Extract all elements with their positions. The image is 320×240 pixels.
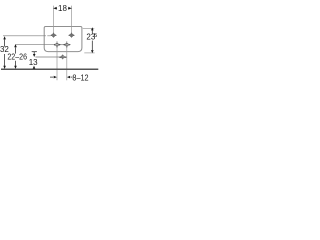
svg-text:22–26: 22–26 [7, 52, 27, 61]
svg-text:18: 18 [58, 4, 67, 13]
svg-text:5: 5 [94, 33, 97, 39]
svg-text:13: 13 [29, 58, 38, 67]
svg-text:8–12: 8–12 [72, 73, 89, 82]
